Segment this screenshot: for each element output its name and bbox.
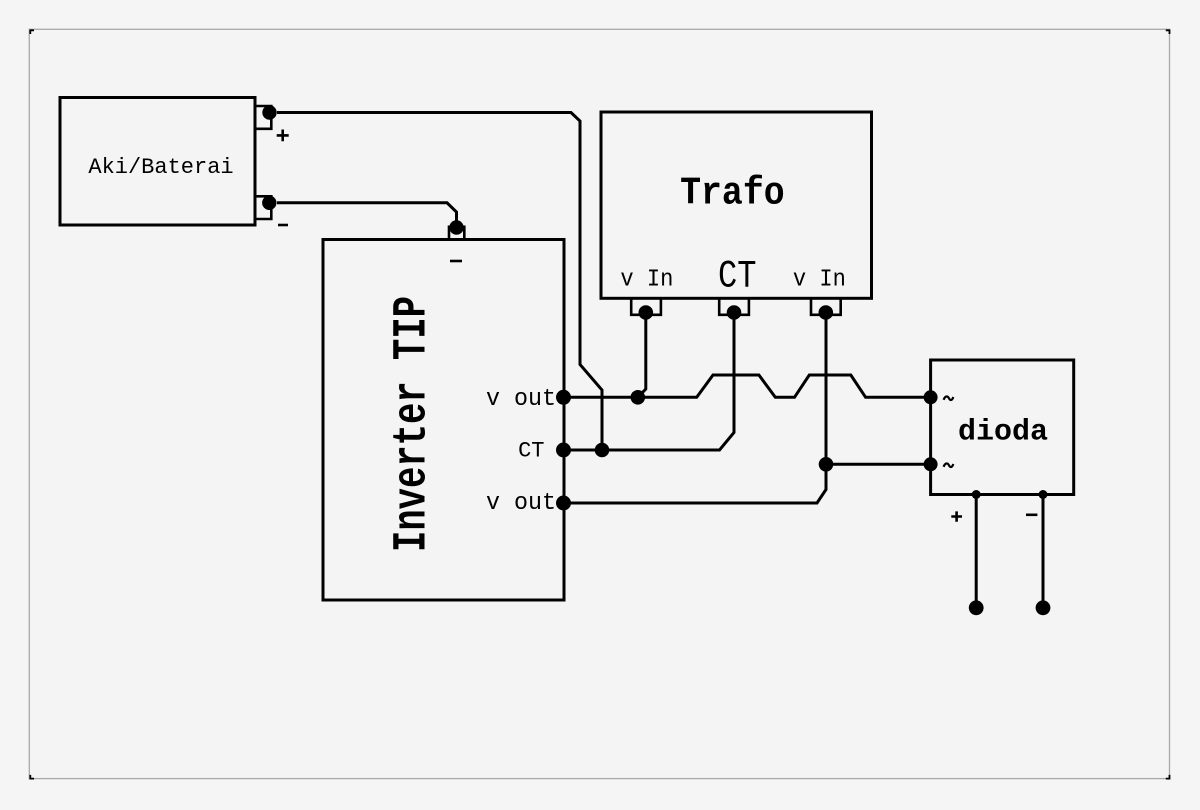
wire inverter V out upper to dioda upper ~ (hops over CT and V In wires) [564,375,931,397]
battery + terminal bracket [255,106,271,129]
transformer T1 box Trafo [601,112,872,298]
label - (battery negative) [278,224,288,227]
battery - terminal bracket [255,196,271,219]
label - (dioda output) [1026,513,1037,516]
trafo right pin dot [819,305,834,320]
junction dot CT net / battery + [595,443,610,458]
wire inverter CT to trafo CT [563,313,734,451]
trafo left pin bracket [631,298,661,315]
dioda - output end dot [1036,600,1051,615]
dioda lower ~ terminal dot [924,457,938,471]
wire battery - to inverter top pin [277,203,457,228]
dioda upper ~ terminal dot [924,390,938,404]
svg-text:Inverter TIP: Inverter TIP [386,296,439,552]
label + (battery positive) [277,130,289,142]
inverter top pin dot [449,220,463,234]
inverter pin dot V out lower [556,496,571,511]
svg-text:v out: v out [486,386,556,413]
rectifier D1 box dioda [931,360,1074,495]
svg-text:CT: CT [518,438,544,463]
label + (dioda output) [951,511,962,521]
dioda + output pin dot [972,490,981,499]
label - (inverter top pin) [450,260,462,263]
wire battery + to inverter CT net [277,113,602,451]
label ~ (upper ac input) [944,396,954,400]
label ~ (lower ac input) [944,463,954,467]
svg-text:v In: v In [620,266,673,293]
svg-text:Trafo: Trafo [680,172,785,216]
dioda + output end dot [969,600,984,615]
wire trafo left V In down to V out net [638,313,646,398]
inverter pin dot V out upper [556,390,571,405]
wire dioda + output [975,495,978,608]
wire dioda - output [1042,495,1045,608]
junction dot V In right / dioda lower ~ [819,457,834,472]
trafo CT pin bracket [719,298,749,315]
inverter pin dot CT [556,443,571,458]
wire inverter V out lower to trafo V In right [563,313,826,504]
trafo right pin bracket [811,298,841,315]
trafo CT pin dot [727,305,742,320]
battery + terminal dot [262,105,276,119]
inverter top pin bracket [449,227,464,240]
dioda - output pin dot [1039,490,1048,499]
svg-text:v out: v out [486,490,556,517]
wire junction to dioda lower ~ [826,463,931,466]
battery B1 box Aki/Baterai [60,98,255,226]
svg-text:dioda: dioda [958,416,1048,450]
trafo left pin dot [639,305,654,320]
inverter U1 box Inverter TIP [323,240,564,601]
svg-text:CT: CT [718,255,757,299]
battery - terminal dot [262,196,276,210]
svg-text:v In: v In [793,266,846,293]
svg-text:Aki/Baterai: Aki/Baterai [88,155,233,180]
junction dot V out net / trafo V In left [631,390,646,405]
